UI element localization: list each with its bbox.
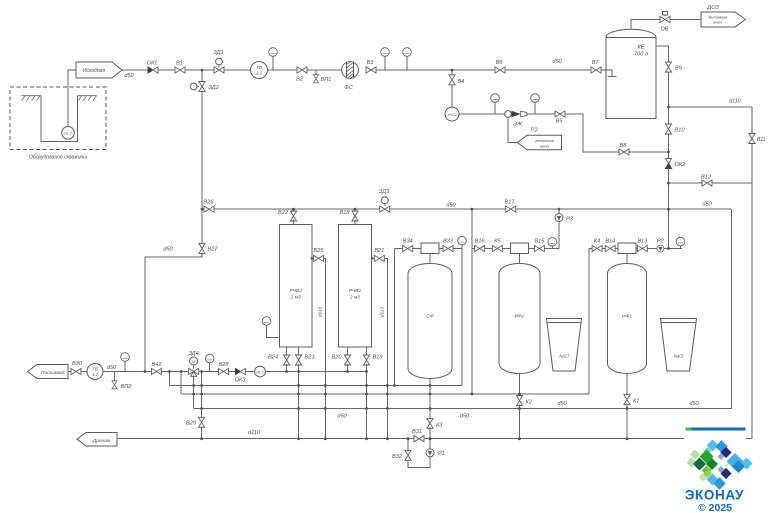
wire tank vent riser bbox=[631, 20, 660, 30]
valve B20 bbox=[344, 355, 350, 365]
wire ZD1 to TV1.1 bbox=[224, 69, 251, 71]
wire IF2 manifold left bbox=[472, 248, 475, 250]
wire B29 to drain bbox=[201, 426, 203, 438]
valve B25 bbox=[314, 255, 324, 261]
brine tank NaCl 1 bbox=[661, 319, 697, 372]
wire riser x202 from main line through ZD2 bbox=[201, 70, 203, 82]
wire TV1.2 to B42 bbox=[103, 371, 152, 373]
wire staircase drop 1 bbox=[169, 372, 171, 386]
valve B11 bbox=[749, 134, 755, 144]
svg-text:d50: d50 bbox=[689, 401, 699, 407]
valve B1 bbox=[175, 67, 185, 73]
svg-text:ГО: ГО bbox=[530, 128, 538, 134]
svg-text:К4: К4 bbox=[594, 238, 600, 244]
svg-text:ЭЖ: ЭЖ bbox=[513, 122, 523, 128]
wire B8 to riser bbox=[629, 151, 669, 153]
blue top arm bbox=[707, 440, 719, 452]
valve B17 bbox=[506, 206, 516, 212]
svg-text:В29: В29 bbox=[186, 421, 196, 427]
filter IF1 bbox=[608, 264, 647, 374]
svg-text:В42: В42 bbox=[152, 362, 163, 368]
valve B19 bbox=[363, 355, 369, 365]
motor valve ZD3 bbox=[380, 197, 390, 212]
svg-text:d50: d50 bbox=[163, 247, 173, 253]
node: drinking water flag (Питьевая) bbox=[28, 365, 69, 379]
valve B6 bbox=[495, 67, 505, 73]
svg-text:УН1.2: УН1.2 bbox=[447, 113, 456, 117]
valve B26 bbox=[204, 206, 214, 212]
svg-text:В23: В23 bbox=[305, 354, 316, 360]
valve B5 bbox=[555, 111, 565, 117]
well ground surface right bbox=[78, 96, 97, 101]
wire staircase drop 2 bbox=[180, 372, 182, 395]
valve K2 bbox=[516, 396, 522, 406]
blue arrowhead diamonds bbox=[727, 453, 744, 470]
svg-text:В5: В5 bbox=[556, 119, 564, 125]
wire B30 to TV1.2 bbox=[81, 371, 87, 373]
wire pump riser to source flag bbox=[68, 70, 76, 127]
motor valve ZD2 bbox=[190, 82, 205, 92]
wire B21 elbow down d110 drop bbox=[384, 258, 387, 438]
motor valve ZD1 bbox=[214, 58, 224, 73]
wire B32 to drain bbox=[407, 439, 409, 452]
wire RChV1 overflow to B21 bbox=[372, 257, 374, 259]
valve B18 bbox=[352, 211, 358, 221]
svg-text:ФС: ФС bbox=[344, 85, 353, 91]
wire IF1 bottom stem to K1 bbox=[626, 374, 628, 396]
wire RChV2 inlet stem bbox=[293, 209, 295, 212]
instrument stem 2 after B3 bbox=[403, 48, 412, 70]
svg-text:1.2: 1.2 bbox=[92, 372, 99, 377]
wire K1 to drain bbox=[626, 404, 628, 439]
logo bar bbox=[685, 428, 745, 431]
node: exhaust flag DO3 bbox=[701, 12, 746, 27]
svg-text:В27: В27 bbox=[208, 247, 219, 253]
instrument stem after TV1.1 bbox=[269, 48, 278, 70]
wire B29 riser from drinking line to drain bbox=[201, 372, 203, 419]
svg-text:озона: озона bbox=[540, 145, 550, 149]
wire RChV1 bottom stem left bbox=[347, 347, 349, 356]
wire x202 down to B27 bbox=[201, 91, 203, 245]
wire B33 to corner, riser to bus1 bbox=[453, 249, 462, 386]
motor 3-way valve ZD4 bbox=[189, 357, 199, 376]
wire B24 to drinking line bbox=[286, 364, 288, 372]
instrument stem on drinking line bbox=[121, 353, 130, 372]
wire y209 mid segment bbox=[214, 208, 380, 210]
valve B23 bbox=[296, 355, 302, 365]
pump N1.3 bbox=[255, 366, 266, 377]
wire P3 riser from y209 bbox=[558, 209, 560, 248]
wire B10 to OK2 bbox=[668, 134, 670, 159]
svg-text:Н1.3: Н1.3 bbox=[256, 370, 263, 374]
wire box stem to IF1 bbox=[626, 254, 628, 265]
wire OK1 to B1 bbox=[158, 69, 175, 71]
control box SF bbox=[421, 243, 439, 253]
svg-text:ВП1: ВП1 bbox=[321, 77, 332, 83]
svg-text:В13: В13 bbox=[637, 238, 648, 244]
wire bus line 2 (y393) bbox=[181, 393, 589, 395]
well shaft bbox=[41, 96, 77, 142]
node: drain flag (Дренаж) bbox=[77, 433, 117, 447]
wire IF1 bay left riser bbox=[588, 249, 590, 395]
wire IF2 bay left riser from y209 bbox=[471, 209, 473, 394]
svg-text:В6: В6 bbox=[496, 60, 504, 66]
wire TV1.1 to B2 bbox=[268, 69, 298, 71]
valve B42 bbox=[152, 368, 162, 374]
wire B23 drop to drain bbox=[298, 364, 300, 439]
instrument stem after ejector bbox=[531, 94, 540, 114]
wire y209 segment to B17 bbox=[390, 208, 506, 210]
svg-text:К3: К3 bbox=[436, 423, 443, 429]
well equipment dashed enclosure bbox=[10, 87, 106, 150]
wire RChV2 bottom stem right bbox=[298, 347, 300, 356]
svg-text:КЕ: КЕ bbox=[637, 45, 644, 51]
wire SF bay left edge bbox=[394, 249, 396, 386]
wire B25 elbow down d110 drop bbox=[324, 258, 326, 438]
instrument on RChV2 shell bbox=[262, 317, 279, 338]
wire ejector suction to GO flag bbox=[508, 117, 518, 142]
valve B28 bbox=[219, 368, 229, 374]
valve K1 bbox=[624, 395, 630, 405]
svg-text:d50: d50 bbox=[107, 365, 117, 371]
svg-text:В20: В20 bbox=[332, 354, 343, 360]
wire B7 into tank KE with dip tube bbox=[601, 70, 617, 76]
valve B27 bbox=[199, 243, 205, 253]
svg-text:d50: d50 bbox=[337, 414, 347, 420]
svg-text:СФ: СФ bbox=[426, 314, 433, 320]
wire ZD4 to B28 bbox=[199, 371, 219, 373]
svg-text:В19: В19 bbox=[373, 354, 383, 360]
valve B12 bbox=[702, 180, 712, 186]
wire P1 stem bbox=[429, 439, 431, 449]
svg-text:В33: В33 bbox=[443, 238, 454, 244]
svg-text:РЧВ2: РЧВ2 bbox=[289, 288, 302, 294]
wire B13 to P2 bbox=[647, 248, 657, 250]
svg-text:ТВ: ТВ bbox=[92, 366, 98, 371]
tank KE 700 l bbox=[606, 29, 656, 118]
wire branch d110 to right column bbox=[669, 106, 753, 108]
svg-text:d50: d50 bbox=[124, 73, 134, 79]
node: ozone generator flag GO bbox=[518, 135, 562, 150]
svg-text:В32: В32 bbox=[392, 454, 403, 460]
wire RChV2 bottom stem left bbox=[286, 347, 288, 356]
wire bus line 1 (y385.5) bbox=[170, 385, 463, 387]
valve B31 bbox=[414, 436, 424, 442]
svg-text:Оборудование скважины: Оборудование скважины bbox=[29, 155, 87, 161]
svg-text:2 м3: 2 м3 bbox=[290, 295, 301, 301]
valve K4 bbox=[592, 245, 602, 251]
valve B32 bbox=[405, 450, 411, 460]
svg-text:вент.: вент. bbox=[713, 21, 723, 25]
vent valve VP1 bbox=[313, 70, 318, 83]
valve K5 bbox=[492, 245, 502, 251]
svg-text:В15: В15 bbox=[534, 238, 545, 244]
svg-text:В25: В25 bbox=[314, 248, 325, 254]
wire drain line left of B31 bbox=[117, 438, 414, 440]
pressure gauge P1 bbox=[426, 449, 434, 457]
wire right column lower (d110 drop) bbox=[746, 144, 752, 439]
svg-text:ОК1: ОК1 bbox=[147, 61, 158, 67]
svg-text:Вытяжная: Вытяжная bbox=[709, 16, 727, 20]
svg-text:К2: К2 bbox=[526, 400, 533, 406]
wire IF1 manifold left bbox=[589, 248, 592, 250]
wire B5 to B8 elbow bbox=[565, 114, 619, 152]
wire B22 into tank with arrow bbox=[293, 220, 295, 230]
valve B15 bbox=[534, 245, 544, 251]
svg-text:В22: В22 bbox=[278, 210, 289, 216]
wire P1 bypass loop bbox=[408, 457, 430, 467]
svg-text:В31: В31 bbox=[412, 429, 422, 435]
green diamond cluster bbox=[690, 450, 700, 460]
svg-text:ДО3: ДО3 bbox=[706, 5, 719, 11]
air valve OV bbox=[660, 12, 670, 23]
svg-text:Исходная: Исходная bbox=[83, 68, 105, 74]
flow indicator P2 bbox=[657, 245, 664, 252]
valve B8 bbox=[619, 149, 629, 155]
wire x202 jog left to x145 riser down to drinking line bbox=[145, 252, 202, 371]
svg-text:В10: В10 bbox=[675, 128, 686, 134]
wire box to B33 bbox=[439, 248, 443, 250]
valve B13 bbox=[637, 245, 647, 251]
valve B7 bbox=[591, 67, 601, 73]
wire OV to flag DO3 bbox=[670, 19, 701, 21]
svg-text:700 л: 700 л bbox=[634, 52, 649, 58]
filter IF2 bbox=[499, 264, 540, 374]
wire flag to B30 bbox=[68, 371, 71, 373]
svg-text:Н1.2: Н1.2 bbox=[64, 132, 72, 136]
svg-text:В3: В3 bbox=[367, 60, 375, 66]
wire box stem to SF bbox=[429, 254, 431, 265]
svg-text:ЗД2: ЗД2 bbox=[209, 85, 220, 91]
svg-text:В14: В14 bbox=[605, 238, 615, 244]
wire B42 to ZD4 bbox=[162, 371, 189, 373]
svg-text:Питьевая: Питьевая bbox=[41, 370, 64, 376]
wire P2 to manifold end bbox=[664, 248, 682, 250]
wire K2 to drain bbox=[519, 405, 521, 439]
control box IF1 bbox=[618, 243, 636, 253]
svg-text:В34: В34 bbox=[403, 238, 413, 244]
svg-text:d110: d110 bbox=[729, 99, 742, 105]
wire B15 to P3 riser bbox=[544, 248, 559, 250]
instrument at IF2 manifold bbox=[548, 238, 557, 249]
valve B2 bbox=[297, 67, 307, 73]
svg-text:d50: d50 bbox=[460, 414, 470, 420]
valve B22 bbox=[290, 211, 296, 221]
svg-text:d50: d50 bbox=[557, 401, 567, 407]
pump UN1.2 bbox=[445, 107, 459, 121]
valve B29 bbox=[199, 417, 205, 427]
svg-text:К5: К5 bbox=[494, 238, 501, 244]
wire IF2 bottom stem to K2 bbox=[519, 374, 521, 397]
wire box to B15 bbox=[528, 248, 534, 250]
wire RChV2 overflow to B25 bbox=[312, 257, 314, 259]
svg-text:В2: В2 bbox=[296, 77, 304, 83]
valve B24 bbox=[284, 355, 290, 365]
svg-text:генератор: генератор bbox=[535, 139, 554, 143]
wire B12 link bbox=[669, 182, 753, 184]
tank RChV2 bbox=[280, 225, 312, 348]
svg-text:NaCl: NaCl bbox=[674, 354, 684, 359]
wire y209 right segment to corner bbox=[516, 208, 732, 210]
instrument stem right of ZD4 bbox=[205, 354, 214, 371]
wire B14 to control box bbox=[615, 248, 618, 250]
wire B28 to OK3 bbox=[229, 371, 236, 373]
wire main line flag to OK1 bbox=[122, 69, 148, 71]
wire B9 down to B10, node y107 bbox=[668, 72, 670, 124]
svg-text:ЗД1: ЗД1 bbox=[213, 50, 223, 56]
wire drain line right of B31 bbox=[424, 438, 684, 440]
wire B2 to FS bbox=[307, 69, 342, 71]
control box IF2 bbox=[511, 243, 529, 253]
check valve OK3 bbox=[235, 368, 245, 374]
svg-text:Дренаж: Дренаж bbox=[92, 438, 111, 444]
valve B21 bbox=[374, 255, 384, 261]
wire ZD4 bottom stem to d50 bus bbox=[193, 375, 195, 408]
filter SF bbox=[408, 264, 452, 379]
svg-text:В16: В16 bbox=[475, 238, 486, 244]
svg-text:К1: К1 bbox=[633, 399, 639, 405]
svg-text:Р1: Р1 bbox=[438, 451, 445, 457]
svg-text:ОК3: ОК3 bbox=[235, 378, 247, 384]
svg-text:NaCl: NaCl bbox=[559, 354, 569, 359]
well ground surface left bbox=[22, 96, 41, 101]
wire B16 to K5 bbox=[485, 248, 493, 250]
wire box stem to IF2 bbox=[519, 254, 521, 265]
wire B34 to control box bbox=[413, 248, 422, 250]
wire B3 to B6, node at x452 bbox=[376, 69, 495, 71]
valve B9 bbox=[665, 62, 671, 72]
wire K3 to drain bbox=[429, 427, 431, 438]
svg-text:ИФ1: ИФ1 bbox=[622, 314, 632, 320]
svg-text:1.1: 1.1 bbox=[256, 71, 263, 76]
node: source flag (Исходная) bbox=[76, 62, 122, 78]
svg-text:В17: В17 bbox=[505, 200, 516, 206]
valve B10 bbox=[665, 124, 671, 134]
svg-text:ТВ: ТВ bbox=[256, 65, 262, 70]
wire box to B13 bbox=[636, 248, 638, 250]
svg-text:ОК2: ОК2 bbox=[675, 162, 687, 168]
wire RChV1 bottom stem right bbox=[366, 347, 368, 356]
valve B34 bbox=[403, 245, 413, 251]
svg-text:d50: d50 bbox=[446, 202, 456, 208]
flow meter TV1.1 bbox=[251, 62, 268, 79]
svg-text:d110: d110 bbox=[248, 430, 261, 436]
wire B20 to drinking line bbox=[347, 364, 349, 372]
strainer FS bbox=[342, 62, 359, 79]
svg-text:d110: d110 bbox=[380, 307, 386, 318]
wire K4 to B14 bbox=[602, 248, 605, 250]
wire bus line 4 d50 (y408.5) with right riser bbox=[194, 209, 732, 408]
wire SF bottom stem to K3 bbox=[429, 379, 431, 420]
logo wordmark bbox=[685, 488, 744, 513]
blue bottom arm bbox=[707, 474, 719, 486]
valve B14 bbox=[605, 245, 615, 251]
svg-text:В9: В9 bbox=[675, 66, 682, 72]
svg-text:В24: В24 bbox=[268, 354, 278, 360]
valve B4 bbox=[449, 75, 455, 85]
instrument at IF1 manifold end bbox=[676, 237, 685, 248]
svg-text:ВП2: ВП2 bbox=[121, 384, 133, 390]
check valve OK2 bbox=[665, 159, 671, 169]
valve B30 bbox=[71, 368, 81, 374]
brine tank NaCl 2 bbox=[547, 319, 582, 372]
svg-text:В18: В18 bbox=[340, 210, 351, 216]
svg-text:ЗД3: ЗД3 bbox=[379, 189, 390, 195]
valve B3 bbox=[366, 67, 376, 73]
svg-text:Р2: Р2 bbox=[657, 238, 665, 244]
instrument at SF manifold end bbox=[458, 236, 467, 248]
svg-text:В7: В7 bbox=[592, 60, 600, 66]
svg-text:В28: В28 bbox=[219, 362, 230, 368]
tank RChV1 bbox=[339, 225, 372, 348]
wire B4 to pump UN1.2 bbox=[451, 85, 453, 107]
wire SF manifold left bbox=[395, 248, 403, 250]
svg-text:ЗД4: ЗД4 bbox=[188, 351, 198, 357]
wire right column upper bbox=[751, 107, 753, 134]
svg-text:ОВ: ОВ bbox=[660, 27, 668, 33]
wire ozone branch down from main bbox=[451, 70, 453, 75]
svg-text:ИФ2: ИФ2 bbox=[515, 314, 525, 320]
wire distribution line y209 left segment bbox=[202, 208, 204, 210]
svg-text:d50: d50 bbox=[552, 59, 562, 65]
wire OK2 down to IF1 manifold bbox=[668, 169, 670, 249]
svg-text:В11: В11 bbox=[757, 137, 766, 143]
wire pump to ejector bbox=[459, 113, 505, 115]
svg-text:В12: В12 bbox=[701, 175, 712, 181]
wire B19 drop to drain bbox=[366, 364, 368, 439]
valve B33 bbox=[443, 245, 453, 251]
instrument stem before ejector bbox=[491, 94, 500, 114]
svg-text:© 2025: © 2025 bbox=[698, 502, 732, 513]
wire B1 to ZD1, node at x202 bbox=[185, 69, 214, 71]
svg-text:Р3: Р3 bbox=[566, 217, 574, 223]
svg-text:ЭКОНАУ: ЭКОНАУ bbox=[685, 488, 744, 503]
wire ejector to B5 bbox=[527, 113, 555, 115]
flow meter TV1.2 bbox=[87, 364, 103, 380]
wire tank outlet to B9 riser bbox=[656, 46, 669, 62]
svg-text:d50: d50 bbox=[702, 202, 712, 208]
svg-text:В4: В4 bbox=[458, 79, 465, 85]
svg-text:В30: В30 bbox=[72, 361, 83, 367]
wire B6 to B7 bbox=[505, 69, 591, 71]
wire OK3 to N1.3 and on to tank stems bbox=[245, 371, 366, 373]
wire B18 into tank with arrow bbox=[354, 220, 356, 230]
check valve OK1 bbox=[148, 67, 158, 73]
svg-text:РЧВ1: РЧВ1 bbox=[349, 288, 362, 294]
wire RChV1 inlet stem bbox=[354, 209, 356, 212]
wire K5 to control box bbox=[502, 248, 510, 250]
svg-text:d110: d110 bbox=[318, 307, 324, 318]
valve B16 bbox=[475, 245, 485, 251]
valve K3 bbox=[427, 418, 433, 428]
svg-text:В26: В26 bbox=[204, 200, 215, 206]
svg-text:В1: В1 bbox=[176, 61, 183, 67]
vent valve VP2 bbox=[112, 372, 117, 389]
pump N1.2 bbox=[62, 127, 75, 140]
svg-text:2 м3: 2 м3 bbox=[349, 295, 360, 301]
flow indicator P3 bbox=[555, 214, 563, 222]
logo ЭКОНАУ mosaic bbox=[687, 440, 753, 490]
ejector EZh bbox=[505, 111, 527, 118]
svg-text:В21: В21 bbox=[374, 248, 384, 254]
instrument stem 1 after B3 bbox=[381, 48, 390, 70]
svg-text:В8: В8 bbox=[620, 143, 628, 149]
